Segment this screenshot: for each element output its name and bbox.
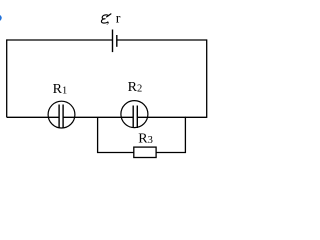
svg-text:r: r [116,12,121,27]
svg-text:,: , [106,11,109,26]
svg-text:R1: R1 [53,82,68,97]
svg-text:R2: R2 [128,80,143,95]
svg-text:R3: R3 [138,132,153,147]
